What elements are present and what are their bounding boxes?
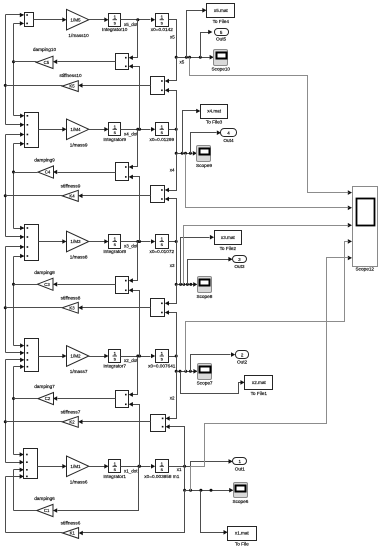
block To File To File3 (x4.mat) (201, 105, 228, 119)
wire stub into sum mass3 port (14, 256, 24, 258)
integrator Integrator10 (109, 14, 121, 27)
wire K5 force net vertical (5, 15, 7, 125)
node x5 junction (175, 56, 178, 59)
svg-text:x0=0.01299: x0=0.01299 (149, 137, 174, 142)
sum block Sum5 (25, 13, 34, 27)
node C4 lane junction (12, 171, 15, 174)
wire C5 sum output (58, 61, 116, 63)
svg-text:C5: C5 (44, 60, 50, 65)
wire to Out2 (191, 355, 231, 372)
wire x3_dot down to C3 sum in1 (133, 242, 138, 281)
wire to Out5 (201, 33, 209, 58)
integrator Integrator7 (109, 350, 121, 363)
wire x3 to K3 sum in1 (169, 285, 177, 304)
svg-text:Out5: Out5 (216, 37, 227, 42)
svg-text:1/M1: 1/M1 (70, 464, 81, 469)
gain stiffness K2 (62, 416, 78, 427)
wire C1 feedback into Sum1 in3 (14, 469, 24, 471)
gain damping C2 (38, 393, 54, 405)
svg-text:damping8: damping8 (34, 270, 55, 275)
wire stub into sum mass2 port (14, 366, 24, 368)
gain 1/M2 (67, 346, 89, 367)
wire to To File2 (181, 238, 210, 285)
block To File To File1 (x2.mat) (245, 376, 273, 390)
node K3 lane junction (4, 306, 7, 309)
node x2_dot up junction (138, 355, 141, 358)
wire x4 node line (177, 153, 193, 155)
node K4 lane junction (4, 194, 7, 197)
gain 1/M4 (67, 119, 89, 140)
svg-text:x2_dot: x2_dot (124, 358, 138, 363)
wire stub into sum mass4 port (14, 115, 24, 117)
wire stub into sum mass3 port (14, 228, 24, 230)
wire x1 down to K1 (83, 491, 185, 533)
node x2 node (175, 370, 178, 373)
wire stub into sum mass3 port (6, 236, 24, 238)
wire x1 to Scope12 in5 (191, 258, 349, 491)
node x4_dot up junction (138, 128, 141, 131)
svg-text:x3_dot: x3_dot (124, 244, 138, 249)
wire x5 to Scope12 in1 (190, 58, 349, 193)
node Scope12 wire5 branch (189, 489, 192, 492)
svg-text:damping9: damping9 (34, 158, 55, 163)
svg-text:To File2: To File2 (220, 246, 237, 251)
wire x2_dot (121, 356, 151, 358)
wire stub into sum mass4 port (6, 124, 24, 126)
wire stub into sum mass2 port (14, 345, 24, 347)
svg-text:K2: K2 (69, 420, 75, 425)
wire stub into sum mass1 port (14, 454, 24, 456)
wire C1 input from x1_dot (58, 467, 139, 511)
integrator x0=0.003858 m1 (156, 460, 169, 473)
sum block damping diff C2 (116, 391, 129, 408)
svg-text:x4.mat: x4.mat (207, 109, 222, 114)
node Scope12 wire2 branch (184, 152, 187, 155)
svg-text:C2: C2 (45, 396, 51, 401)
wire to Out4 (191, 133, 217, 154)
svg-text:damping10: damping10 (33, 47, 57, 52)
sum block Sum3 (25, 225, 39, 261)
svg-text:Integrator9: Integrator9 (103, 137, 126, 142)
svg-text:To File3: To File3 (206, 120, 223, 125)
sum block damping diff C3 (116, 277, 129, 294)
svg-text:Out2: Out2 (237, 360, 248, 365)
node Out3 branch (186, 283, 189, 286)
svg-text:Integrator1: Integrator1 (103, 474, 126, 479)
node x1 mat branch (199, 489, 202, 492)
svg-text:1: 1 (113, 237, 116, 242)
wire x4 to K4 sum in1 (169, 154, 177, 191)
wire stub into sum mass2 port (6, 359, 24, 361)
svg-text:x0=0.007641: x0=0.007641 (148, 364, 176, 369)
svg-text:Integrator10: Integrator10 (102, 27, 128, 32)
svg-text:Scope7: Scope7 (197, 381, 213, 386)
svg-text:damping6: damping6 (34, 496, 55, 501)
wire gain to Integrator (89, 466, 105, 468)
svg-text:1/mass10: 1/mass10 (68, 33, 89, 38)
node C2 lane junction (12, 397, 15, 400)
svg-text:x1: x1 (177, 467, 182, 472)
scope Scope12 block (353, 187, 378, 267)
wire x5 to corner (169, 20, 177, 58)
node x1_dot up junction (138, 465, 141, 468)
node Scope12 wire1 branch (188, 56, 191, 59)
svg-text:Scope12: Scope12 (356, 267, 375, 272)
svg-text:K1: K1 (70, 531, 76, 536)
svg-text:1: 1 (160, 15, 163, 20)
svg-text:x5_dot: x5_dot (124, 22, 138, 27)
wire C4 sum output (58, 172, 116, 174)
wire stub into sum mass2 port (6, 352, 24, 354)
wire x1 jog to Out1 (191, 462, 229, 467)
outport Out3 (233, 256, 247, 263)
svg-text:x1_dot: x1_dot (124, 469, 138, 474)
node x3 junction (175, 240, 178, 243)
sum block damping diff C4 (116, 163, 129, 181)
wire x2 lane up to K3 sum in2 (169, 313, 177, 357)
svg-text:Scope8: Scope8 (196, 294, 212, 299)
wire K1 feedback into Sum1 in4 (6, 476, 24, 478)
wire x4 lane down (176, 130, 178, 154)
svg-text:To File1: To File1 (251, 391, 268, 396)
wire K2 sum output (83, 421, 151, 423)
wire Sum1 to gain (38, 466, 63, 468)
svg-text:1: 1 (160, 461, 163, 466)
gain stiffness K3 (62, 302, 78, 313)
wire x3 to Scope12 in3 (184, 226, 349, 285)
svg-text:Out4: Out4 (223, 138, 234, 143)
svg-text:1: 1 (160, 124, 163, 129)
svg-text:1/M5: 1/M5 (70, 17, 81, 22)
svg-text:K5: K5 (69, 84, 75, 89)
svg-text:1: 1 (113, 15, 116, 20)
svg-text:stiffness7: stiffness7 (61, 410, 81, 415)
svg-text:1: 1 (113, 351, 116, 356)
wire x4 lane up to K5 sum in2 (169, 91, 177, 130)
wire x5_dot (121, 19, 151, 21)
node x4_dot junction (136, 128, 139, 131)
sum block Sum4 (25, 113, 39, 148)
wire x4_dot up to C5 sum in2 (133, 67, 140, 130)
gain stiffness K4 (62, 190, 78, 201)
wire stub into sum mass4 port (6, 134, 24, 136)
wire C2 sum output (58, 398, 116, 400)
svg-text:Integrator7: Integrator7 (103, 364, 126, 369)
svg-text:1/M2: 1/M2 (70, 354, 81, 359)
svg-text:stiffness10: stiffness10 (59, 73, 82, 78)
scope Scope12 screen (357, 199, 375, 226)
sum block stiffness diff K4 (151, 186, 165, 203)
wire x2 node line (177, 371, 194, 373)
wire Sum5 to gain (34, 19, 63, 21)
outport Out5 (215, 29, 229, 36)
wire x1_dot (121, 466, 151, 468)
wire x4 to Scope12 in2 (186, 154, 349, 208)
svg-text:stiffness8: stiffness8 (61, 295, 81, 300)
gain damping C5 (36, 56, 53, 68)
node x1 junction (183, 465, 186, 468)
wire Sum4 to gain (39, 129, 63, 131)
node Out5 branch (199, 56, 202, 59)
node extra branch x3 node (189, 283, 192, 286)
node C3 lane junction (12, 283, 15, 286)
wire K5 output row (6, 85, 63, 87)
svg-text:stiffness9: stiffness9 (61, 184, 81, 189)
svg-text:To File4: To File4 (213, 19, 230, 24)
integrator x0=0.01299 (156, 123, 169, 136)
svg-text:C4: C4 (45, 170, 51, 175)
wire C2 output row (14, 398, 38, 400)
port arrow Scope12 in1 (348, 190, 352, 195)
wire to Out3 (188, 260, 229, 285)
wire Sum3 to gain (39, 241, 63, 243)
wire C3 force net vertical (13, 257, 15, 346)
wire K1 output row (6, 532, 63, 534)
sum block stiffness diff K3 (151, 299, 165, 317)
wire C1 output row (14, 510, 37, 512)
svg-text:Scope6: Scope6 (232, 499, 248, 504)
node x3_dot up junction (138, 240, 141, 243)
wire K4 output row (6, 195, 63, 197)
svg-text:x2.mat: x2.mat (252, 380, 267, 385)
scope Scope9 (197, 146, 211, 162)
wire x4_dot down to C4 sum in1 (133, 130, 138, 167)
svg-text:Out1: Out1 (235, 466, 246, 471)
svg-text:1/mass6: 1/mass6 (70, 480, 88, 485)
svg-text:1/M3: 1/M3 (70, 239, 81, 244)
wire x4_dot (121, 129, 151, 131)
gain 1/M1 (67, 456, 89, 477)
gain stiffness K1 (63, 528, 79, 539)
svg-text:Scope10: Scope10 (212, 67, 231, 72)
scope Scope10 (214, 50, 228, 66)
svg-text:1: 1 (160, 237, 163, 242)
wire K4 sum output (83, 195, 151, 197)
wire x1_dot up to C2 sum in2 (133, 405, 140, 467)
node Out1 small branch (210, 489, 213, 492)
svg-text:x5: x5 (170, 35, 175, 40)
svg-text:stiffness6: stiffness6 (61, 521, 81, 526)
wire gain to Integrator (89, 129, 105, 131)
node x3 node (175, 283, 178, 286)
scope Scope7 (198, 364, 212, 380)
node x3_dot junction (136, 240, 139, 243)
svg-text:x3.mat: x3.mat (221, 235, 236, 240)
integrator x0=0.007641 (156, 350, 169, 363)
gain stiffness K5 (62, 81, 78, 92)
node C5 lane junction (12, 60, 15, 63)
svg-text:x4_dot: x4_dot (124, 132, 138, 137)
node To File3 branch (181, 152, 184, 155)
wire K1 loop to Sum1 in4 (5, 477, 7, 533)
wire x3_dot up to C4 sum in2 (133, 177, 140, 242)
svg-text:x0=0.01072: x0=0.01072 (149, 249, 174, 254)
wire x2 to K2 sum in1 (170, 372, 177, 419)
wire x1 lane up to K2 sum in2 (170, 427, 185, 467)
wire x2_dot down to C2 sum in1 (133, 357, 138, 395)
wire stub into sum mass5 port (14, 23, 24, 25)
svg-text:1: 1 (113, 124, 116, 129)
wire stub into sum mass5 port (6, 14, 24, 16)
svg-text:K4: K4 (69, 194, 75, 199)
port arrow Scope12 in5 (348, 256, 352, 261)
svg-text:Out3: Out3 (234, 264, 245, 269)
outport Out1 (233, 458, 247, 465)
wire x2 lane down (176, 357, 178, 372)
wire x3 lane down (176, 242, 178, 285)
svg-text:Scope9: Scope9 (196, 163, 212, 168)
node K2 lane junction (4, 420, 7, 423)
wire C2 force net vertical (13, 367, 15, 455)
integrator x0=0.01072 (156, 235, 169, 249)
block To File To File2 (x3.mat) (215, 231, 242, 245)
node Scope12 wire4 branch (184, 370, 187, 373)
svg-text:Integrator8: Integrator8 (103, 249, 126, 254)
node x1 node (183, 489, 186, 492)
wire x1 down to node (184, 467, 186, 491)
integrator x0=0.0142 (156, 14, 169, 27)
wire K3 sum output (83, 307, 151, 309)
wire x3 node line (177, 284, 194, 286)
port arrow Scope12 in2 (348, 206, 352, 211)
node Out2 branch (189, 370, 192, 373)
svg-text:1/mass9: 1/mass9 (70, 143, 88, 148)
svg-text:x5.mat: x5.mat (214, 8, 229, 13)
wire gain to Integrator (89, 356, 105, 358)
wire C1 loop to Sum1 in3 (13, 470, 15, 511)
svg-text:x3: x3 (170, 263, 175, 268)
wire to To File1 (181, 372, 241, 394)
port arrow Scope12 in4 (348, 239, 352, 244)
outport Out2 (236, 351, 249, 359)
node To File4 branch (185, 56, 188, 59)
scope Scope8 (198, 277, 212, 293)
wire C5 output row (14, 61, 37, 63)
wire x1 node line (185, 490, 230, 492)
svg-text:1/mass8: 1/mass8 (70, 255, 88, 260)
wire x2_dot up to C3 sum in2 (133, 291, 140, 357)
svg-text:x5: x5 (180, 60, 185, 65)
integrator Integrator9 (109, 123, 121, 136)
integrator Integrator8 (109, 235, 121, 249)
svg-text:1/M4: 1/M4 (70, 127, 81, 132)
wire K5 sum output (83, 85, 151, 87)
outport Out4 (221, 129, 237, 137)
svg-text:C1: C1 (44, 508, 50, 513)
node x4 node (175, 152, 178, 155)
wire K2 output row (6, 421, 63, 423)
node K5 lane junction (4, 84, 7, 87)
wire gain to Integrator (89, 241, 105, 243)
sum block damping diff C5 (116, 54, 129, 70)
wire x3 lane up to K4 sum in2 (169, 199, 177, 242)
node x5_dot junction (136, 18, 139, 21)
node x2 junction (175, 355, 178, 358)
wire to To File3 (183, 111, 197, 154)
wire x3_dot (121, 241, 151, 243)
sum block stiffness diff K2 (151, 415, 166, 432)
sum block Sum2 (25, 339, 39, 372)
gain damping C3 (37, 278, 53, 290)
wire x4 to node (169, 129, 177, 131)
node Scope12 wire3 branch (182, 283, 185, 286)
wire x2 to node (169, 356, 177, 358)
node To File2 branch (179, 283, 182, 286)
svg-text:damping7: damping7 (34, 384, 55, 389)
wire to x1.mat To File (201, 491, 224, 533)
wire C3 sum output (58, 284, 116, 286)
port arrow Scope12 in3 (348, 223, 352, 228)
wire stub into sum mass1 port (6, 462, 24, 464)
wire x5 to K5 sum in1 (169, 58, 177, 81)
wire Sum2 to gain (39, 356, 63, 358)
svg-text:1: 1 (113, 461, 116, 466)
wire x5_dot down to C5 sum in1 (133, 20, 138, 58)
wire K3 output row (6, 307, 63, 309)
wire x3 to node (169, 241, 177, 243)
svg-text:1/mass7: 1/mass7 (70, 369, 88, 374)
svg-text:x0=0.0142: x0=0.0142 (151, 27, 173, 32)
wire stub into sum mass3 port (6, 246, 24, 248)
svg-text:To File: To File (235, 542, 249, 547)
wire K2 force net vertical (5, 360, 7, 463)
node x1_dot junction (138, 465, 141, 468)
svg-text:1: 1 (160, 351, 163, 356)
scope Scope6 (234, 483, 248, 498)
wire C4 output row (14, 172, 38, 174)
gain damping C1 (37, 504, 53, 516)
svg-text:K3: K3 (69, 305, 75, 310)
wire K4 force net vertical (5, 135, 7, 237)
wire x5 node line (177, 57, 210, 59)
wire C4 force net vertical (13, 144, 15, 229)
wire gain to Integrator (89, 19, 105, 21)
node Out4 branch (189, 152, 192, 155)
node x2_dot junction (136, 355, 139, 358)
gain 1/M5 (67, 9, 89, 30)
gain 1/M3 (67, 231, 89, 252)
wire K3 force net vertical (5, 247, 7, 353)
gain damping C4 (38, 166, 54, 178)
svg-text:x4: x4 (170, 168, 175, 173)
wire C5 force net vertical (13, 24, 15, 116)
node To File1 branch (179, 370, 182, 373)
svg-text:x2: x2 (170, 395, 175, 400)
wire x2 to Scope12 in4 (186, 242, 349, 372)
integrator Integrator1 (109, 460, 121, 473)
sum block Sum1 (24, 449, 38, 479)
wire x1 output (169, 466, 191, 468)
block To File To File4 (x5.mat) (207, 4, 235, 18)
wire C3 output row (14, 284, 38, 286)
wire stub into sum mass4 port (14, 143, 24, 145)
wire to To File4 (187, 11, 203, 58)
node x4 junction (175, 128, 178, 131)
svg-text:C3: C3 (44, 282, 50, 287)
svg-text:x0=0.003858 m1: x0=0.003858 m1 (144, 474, 179, 479)
sum block stiffness diff K5 (151, 77, 165, 95)
block To File To File (x1.mat) (228, 527, 257, 541)
svg-text:x1.mat: x1.mat (235, 531, 250, 536)
